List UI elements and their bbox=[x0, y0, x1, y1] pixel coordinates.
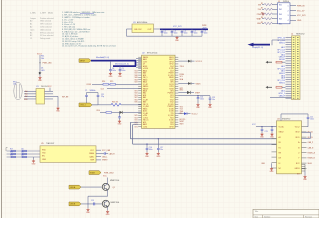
svg-text:CLK6 selected: CLK6 selected bbox=[40, 26, 52, 29]
J2 left pin stubs bbox=[286, 37, 292, 39]
ground of decoupling bank bbox=[176, 36, 178, 37]
svg-text:LEDB: LEDB bbox=[70, 204, 76, 206]
U5 right pins bbox=[96, 149, 101, 151]
svg-text:N70: N70 bbox=[135, 102, 138, 104]
svg-text:IO_B15: IO_B15 bbox=[168, 75, 174, 77]
svg-text:CANH: CANH bbox=[89, 152, 95, 155]
cap C12 with ground bbox=[119, 112, 121, 116]
svg-text:B1: B1 bbox=[30, 32, 32, 34]
svg-text:A2: A2 bbox=[25, 95, 27, 98]
svg-text:ASV-50MHz: ASV-50MHz bbox=[137, 21, 147, 24]
ground of C8 bbox=[110, 72, 112, 73]
svg-text:220: 220 bbox=[21, 148, 24, 150]
svg-text:100n: 100n bbox=[149, 149, 153, 151]
U2 left pin stubs bbox=[138, 56, 141, 58]
svg-text:100n: 100n bbox=[122, 70, 126, 72]
J2 bus entry lower bbox=[268, 86, 272, 88]
svg-text:A1: A1 bbox=[279, 136, 281, 139]
svg-text:GND selected: GND selected bbox=[40, 20, 51, 23]
svg-text:RX1: RX1 bbox=[170, 95, 173, 97]
svg-text:IN5: IN5 bbox=[279, 23, 282, 25]
svg-text:Position selected: Position selected bbox=[40, 17, 54, 20]
sheet left border bbox=[1, 0, 3, 218]
svg-text:GP13: GP13 bbox=[169, 61, 173, 63]
svg-text:SWO: SWO bbox=[180, 123, 185, 125]
svg-text:N91: N91 bbox=[135, 91, 138, 93]
svg-text:IO_B6: IO_B6 bbox=[169, 108, 174, 110]
svg-text:+3V3: +3V3 bbox=[202, 27, 206, 29]
svg-text:VCC_5V: VCC_5V bbox=[297, 10, 305, 12]
svg-text:PWM16: PWM16 bbox=[168, 93, 174, 95]
svg-text:VCC1.2: VCC1.2 bbox=[192, 113, 198, 115]
svg-text:10k: 10k bbox=[41, 58, 44, 60]
port CLK_OSC bbox=[79, 103, 92, 107]
svg-text:Q1: Q1 bbox=[113, 187, 115, 189]
svg-text:INT2: INT2 bbox=[180, 90, 184, 92]
port LED_A bbox=[69, 185, 81, 189]
ground of C24 bbox=[197, 103, 199, 104]
cap C24 bbox=[197, 95, 198, 96]
svg-text:TJA1050T: TJA1050T bbox=[46, 142, 55, 145]
diode D2 row bbox=[178, 60, 188, 62]
svg-text:A2: A2 bbox=[30, 26, 32, 29]
svg-text:WE_11: WE_11 bbox=[143, 104, 148, 106]
svg-text:100n: 100n bbox=[112, 70, 116, 72]
svg-text:MOSI1: MOSI1 bbox=[279, 59, 285, 61]
port LED_B bbox=[69, 202, 81, 206]
svg-text:MMBT3904: MMBT3904 bbox=[111, 202, 120, 204]
ground of U1 bbox=[57, 107, 59, 108]
svg-text:TX17: TX17 bbox=[170, 97, 174, 99]
svg-text:RX4: RX4 bbox=[170, 122, 173, 124]
svg-text:VCC_3V3: VCC_3V3 bbox=[297, 15, 305, 17]
svg-text:ISO1: ISO1 bbox=[295, 137, 299, 139]
svg-text:STAT: STAT bbox=[90, 171, 96, 174]
svg-text:3: 3 bbox=[288, 15, 289, 17]
cap C19 inline bbox=[93, 202, 95, 205]
pull-up loop left of U1 bbox=[14, 82, 22, 100]
svg-text:VCCA: VCCA bbox=[279, 126, 285, 129]
svg-text:N19: N19 bbox=[135, 73, 138, 75]
svg-text:nCS4: nCS4 bbox=[143, 115, 147, 117]
svg-text:10u: 10u bbox=[160, 149, 163, 151]
svg-text:5V0: 5V0 bbox=[258, 9, 261, 11]
svg-text:RX11: RX11 bbox=[170, 86, 174, 88]
svg-text:RS485_A: RS485_A bbox=[308, 152, 316, 155]
svg-text:EN OSC: EN OSC bbox=[135, 29, 143, 31]
svg-text:HDR20X2: HDR20X2 bbox=[296, 34, 305, 36]
svg-text:SHLD: SHLD bbox=[308, 163, 313, 165]
svg-text:N87: N87 bbox=[135, 97, 138, 99]
svg-text:PWR_IN: PWR_IN bbox=[297, 5, 305, 7]
svg-text:R4: R4 bbox=[261, 17, 263, 19]
svg-text:GP0: GP0 bbox=[170, 82, 173, 84]
svg-text:NC2: NC2 bbox=[296, 163, 300, 165]
cap C25 bbox=[209, 96, 211, 98]
svg-text:C19: C19 bbox=[91, 200, 94, 202]
svg-text:CONF: CONF bbox=[86, 84, 91, 86]
svg-text:220: 220 bbox=[21, 151, 24, 153]
svg-text:100n: 100n bbox=[174, 33, 178, 35]
wire Q2 emitter bbox=[107, 207, 109, 211]
wire oscillator loop bbox=[127, 28, 133, 30]
svg-text:24LC64: 24LC64 bbox=[41, 86, 48, 88]
svg-text:N54: N54 bbox=[135, 95, 138, 97]
svg-text:RX18: RX18 bbox=[169, 88, 173, 90]
svg-text:N29: N29 bbox=[135, 82, 138, 84]
wire U2 to U4 line1 bbox=[129, 122, 131, 138]
svg-text:N13: N13 bbox=[135, 70, 138, 72]
cap C23 bbox=[271, 126, 272, 127]
svg-text:nCS16: nCS16 bbox=[143, 68, 148, 70]
svg-text:N72: N72 bbox=[135, 120, 138, 122]
svg-text:GND3: GND3 bbox=[295, 168, 300, 170]
svg-text:R16 33: R16 33 bbox=[112, 102, 118, 104]
svg-text:PWM12: PWM12 bbox=[168, 106, 174, 108]
svg-text:CAN selected: CAN selected bbox=[40, 28, 51, 31]
ground of C17 bbox=[157, 152, 159, 153]
svg-text:N24: N24 bbox=[135, 117, 138, 119]
svg-text:R2: R2 bbox=[261, 8, 263, 10]
svg-text:WE_5: WE_5 bbox=[143, 77, 148, 79]
J1 right pin wires bbox=[290, 5, 296, 7]
svg-text:Size: Size bbox=[255, 216, 259, 218]
cap C9 bbox=[119, 66, 121, 69]
wire Q1 collector up bbox=[107, 178, 109, 185]
svg-text:GPIO selected: GPIO selected bbox=[40, 23, 52, 26]
svg-text:DQ13: DQ13 bbox=[169, 84, 173, 86]
U2 right pin stubs bbox=[175, 56, 178, 58]
svg-text:100n: 100n bbox=[184, 33, 188, 35]
wire stub bottom left bbox=[130, 121, 138, 123]
svg-text:IN3: IN3 bbox=[279, 14, 282, 16]
ground of cap branch bbox=[87, 208, 89, 209]
svg-text:EP1C3T144: EP1C3T144 bbox=[147, 52, 157, 54]
wire cap branch down bbox=[87, 204, 89, 208]
U5 input wires with termination resistors bbox=[7, 150, 41, 152]
transistor Q1 bbox=[102, 183, 109, 190]
wire Q1 emitter down bbox=[107, 190, 109, 196]
svg-text:GP19: GP19 bbox=[169, 126, 173, 128]
svg-text:nCS7: nCS7 bbox=[143, 61, 147, 63]
svg-text:1: 1 bbox=[288, 5, 289, 7]
svg-text:MISO1: MISO1 bbox=[279, 82, 285, 84]
wire U4 top loop bbox=[280, 114, 282, 121]
wire J2 bottom stub bbox=[270, 96, 292, 98]
J2 bus entry upper bbox=[268, 61, 272, 63]
svg-text:D7: D7 bbox=[143, 64, 145, 66]
svg-text:TX12: TX12 bbox=[170, 102, 174, 104]
svg-text:C23: C23 bbox=[265, 131, 268, 133]
svg-text:100n: 100n bbox=[204, 33, 208, 35]
wire Q1 to Q2 link bbox=[88, 195, 108, 197]
svg-text:J_SEL: J_SEL bbox=[30, 12, 37, 14]
svg-text:IN2: IN2 bbox=[279, 9, 282, 11]
svg-text:Number: Number bbox=[264, 216, 271, 218]
svg-text:PWM7: PWM7 bbox=[169, 73, 174, 75]
svg-text:TX12: TX12 bbox=[170, 99, 174, 101]
svg-text:A0: A0 bbox=[25, 90, 27, 93]
wire row 2 bbox=[107, 88, 142, 90]
svg-text:MEM: MEM bbox=[80, 60, 85, 62]
ground of C16 bbox=[146, 152, 148, 153]
svg-text:CLK12: CLK12 bbox=[143, 117, 148, 119]
svg-text:MemData(15..0): MemData(15..0) bbox=[115, 62, 129, 65]
svg-text:100n: 100n bbox=[200, 98, 204, 100]
U4 bottom right pins labels bbox=[302, 163, 306, 165]
svg-text:PWR_LED: PWR_LED bbox=[43, 63, 53, 65]
svg-text:IO_B10: IO_B10 bbox=[168, 115, 174, 117]
U4 left pin stubs bbox=[272, 126, 277, 128]
svg-text:VBUS: VBUS bbox=[196, 83, 202, 85]
svg-text:N25: N25 bbox=[135, 115, 138, 117]
svg-text:Jumper: Jumper bbox=[30, 18, 36, 20]
cap C17 under U2 bbox=[158, 138, 159, 139]
svg-text:WP_EE: WP_EE bbox=[62, 97, 69, 99]
svg-text:PWR_LED2: PWR_LED2 bbox=[104, 172, 114, 174]
svg-text:VREF2: VREF2 bbox=[102, 160, 108, 162]
svg-text:nCS4: nCS4 bbox=[143, 126, 147, 128]
svg-text:IO_B5: IO_B5 bbox=[169, 68, 174, 70]
cap C18 on U5 pin bbox=[101, 153, 104, 155]
wire U4 vcc left bbox=[256, 126, 277, 128]
svg-text:VCC_3V3: VCC_3V3 bbox=[173, 26, 181, 28]
svg-text:RS485_B: RS485_B bbox=[308, 158, 316, 160]
svg-text:15. Do not fit C17 - Productio: 15. Do not fit C17 - Production build on… bbox=[62, 45, 116, 48]
ground U4 left bbox=[271, 168, 273, 169]
svg-text:J_SET: J_SET bbox=[40, 12, 47, 14]
svg-text:Revision: Revision bbox=[305, 216, 312, 218]
svg-text:Debug mode: Debug mode bbox=[40, 38, 50, 40]
svg-text:WE_15: WE_15 bbox=[143, 120, 148, 122]
svg-text:IO_B15: IO_B15 bbox=[168, 104, 174, 106]
svg-text:MMBT3904: MMBT3904 bbox=[110, 180, 119, 182]
svg-text:IO_B6: IO_B6 bbox=[169, 111, 174, 113]
svg-text:R1: R1 bbox=[261, 3, 263, 5]
svg-text:OSC_I: OSC_I bbox=[80, 105, 86, 107]
svg-text:LEDA: LEDA bbox=[70, 186, 76, 189]
svg-text:B2: B2 bbox=[30, 35, 32, 37]
wire to Q1 bbox=[81, 186, 102, 188]
svg-text:R19: R19 bbox=[10, 154, 13, 156]
power bus VCC bbox=[160, 28, 208, 30]
svg-text:DQ8: DQ8 bbox=[170, 79, 173, 81]
svg-text:GND2: GND2 bbox=[279, 132, 284, 134]
svg-text:SPI bus selected: SPI bus selected bbox=[40, 31, 54, 34]
svg-text:R14: R14 bbox=[102, 81, 105, 83]
note 1 hyperlink bbox=[80, 13, 94, 15]
J2 pin numbers bbox=[293, 37, 295, 39]
ground of C9 bbox=[119, 72, 121, 73]
svg-text:Periph(31..0): Periph(31..0) bbox=[252, 46, 263, 49]
svg-text:CAN_P: CAN_P bbox=[308, 141, 315, 144]
svg-text:GND: GND bbox=[297, 20, 302, 22]
ground of termination bbox=[33, 157, 35, 160]
svg-text:50MHz: 50MHz bbox=[90, 90, 96, 92]
ground of LED chain bbox=[39, 77, 41, 78]
svg-text:22p: 22p bbox=[101, 96, 104, 98]
svg-text:R0: R0 bbox=[279, 142, 281, 144]
ground U4 right bbox=[304, 171, 306, 176]
svg-text:PWR: PWR bbox=[257, 14, 262, 16]
svg-text:TX5: TX5 bbox=[170, 113, 173, 115]
svg-text:220: 220 bbox=[21, 154, 24, 156]
decoupling caps C2-C6 bbox=[161, 29, 163, 31]
svg-text:N71: N71 bbox=[135, 126, 138, 128]
svg-text:A0: A0 bbox=[30, 20, 32, 23]
svg-text:GND: GND bbox=[42, 159, 47, 161]
svg-text:IO_B0: IO_B0 bbox=[169, 120, 174, 122]
svg-text:10u: 10u bbox=[212, 99, 215, 101]
port STATUS bbox=[89, 171, 101, 175]
svg-text:GP12: GP12 bbox=[169, 64, 173, 66]
svg-text:CAN_L: CAN_L bbox=[102, 156, 108, 159]
svg-text:C1: C1 bbox=[30, 38, 32, 40]
svg-text:A1: A1 bbox=[25, 93, 27, 96]
svg-text:R17: R17 bbox=[10, 148, 13, 150]
resistor R16 zigzag bbox=[92, 104, 111, 106]
wire U1 vcc stub bbox=[49, 88, 51, 92]
U4 right pin stubs bbox=[302, 126, 307, 128]
wire J2 top feed bbox=[272, 39, 286, 41]
svg-text:IN1: IN1 bbox=[279, 5, 282, 7]
svg-text:4: 4 bbox=[288, 20, 289, 22]
svg-text:2: 2 bbox=[288, 10, 289, 12]
svg-text:SCL: SCL bbox=[180, 76, 183, 78]
svg-text:VCC3.3: VCC3.3 bbox=[196, 61, 202, 63]
svg-text:N88: N88 bbox=[135, 77, 138, 79]
svg-text:SN65HVD: SN65HVD bbox=[282, 118, 291, 120]
svg-text:CAN_H: CAN_H bbox=[109, 152, 116, 155]
svg-text:GP4: GP4 bbox=[170, 91, 173, 93]
svg-text:VCC2: VCC2 bbox=[295, 127, 300, 129]
blue zener row bbox=[178, 113, 184, 115]
J2 net labels bbox=[278, 37, 285, 39]
title block bbox=[253, 209, 319, 218]
svg-text:GND: GND bbox=[257, 23, 262, 25]
cap C16 under U2 bbox=[146, 144, 147, 145]
svg-text:CAN_N: CAN_N bbox=[308, 146, 315, 149]
svg-text:R1: R1 bbox=[279, 147, 281, 149]
diode D4 row bbox=[178, 92, 187, 94]
port MEM_CTRL bbox=[79, 59, 91, 63]
ground of Q2 bbox=[107, 210, 109, 211]
wire oscillator out bbox=[154, 28, 161, 30]
J2 power bus arrow bbox=[253, 44, 270, 46]
U1 right pins bbox=[45, 90, 54, 92]
cap C21 top right bbox=[307, 116, 310, 118]
diode D3 row bbox=[178, 83, 188, 85]
svg-text:R18: R18 bbox=[10, 151, 13, 153]
svg-text:N56: N56 bbox=[135, 99, 138, 101]
bus mem data bbox=[113, 65, 136, 67]
svg-text:N58: N58 bbox=[135, 79, 138, 81]
svg-text:IN4: IN4 bbox=[279, 19, 282, 21]
ground of C25 bbox=[209, 103, 211, 104]
svg-text:DQ4: DQ4 bbox=[170, 66, 173, 68]
transistor Q2 bbox=[102, 200, 109, 207]
svg-text:R15: R15 bbox=[110, 81, 113, 83]
svg-text:RX1: RX1 bbox=[170, 117, 173, 119]
svg-text:10k: 10k bbox=[13, 84, 16, 86]
svg-text:Open: Open bbox=[30, 29, 34, 31]
svg-text:VCC_CAN: VCC_CAN bbox=[102, 149, 111, 152]
svg-text:CANL: CANL bbox=[89, 155, 94, 158]
svg-text:R5: R5 bbox=[261, 22, 263, 24]
cap C8 on bus bbox=[110, 61, 112, 70]
wire vcc rail right bbox=[178, 95, 210, 97]
J1 left pin wires with series resistors bbox=[272, 4, 278, 6]
svg-text:MemAdd(19..0): MemAdd(19..0) bbox=[96, 56, 109, 59]
wire bus stubs to U2 bbox=[136, 58, 142, 60]
svg-text:I2C bus selected: I2C bus selected bbox=[40, 34, 53, 37]
cap C22 bbox=[261, 126, 262, 127]
U1 left pins bbox=[24, 90, 36, 92]
svg-text:CAN_H: CAN_H bbox=[279, 94, 286, 97]
bus corner bbox=[135, 61, 137, 67]
svg-text:100n: 100n bbox=[164, 33, 168, 35]
net class bracket bbox=[5, 148, 7, 152]
svg-text:DQ7: DQ7 bbox=[170, 70, 173, 72]
wire to Q2 bbox=[81, 203, 102, 205]
svg-text:CFG: CFG bbox=[96, 110, 100, 112]
svg-text:A1: A1 bbox=[30, 23, 32, 26]
svg-text:100n: 100n bbox=[194, 33, 198, 35]
svg-text:Mode: Mode bbox=[48, 12, 54, 14]
bus mem address bbox=[91, 60, 136, 62]
svg-text:MISO1: MISO1 bbox=[279, 43, 285, 45]
svg-text:100n: 100n bbox=[310, 119, 314, 121]
wire crystal bottom bbox=[87, 104, 99, 106]
svg-text:Y1: Y1 bbox=[85, 90, 87, 92]
wire U4 right loop2 bbox=[302, 131, 311, 133]
svg-text:RX3: RX3 bbox=[170, 124, 173, 126]
svg-text:N36: N36 bbox=[135, 75, 138, 77]
svg-text:TXD0: TXD0 bbox=[180, 66, 184, 68]
cap bottom wire bbox=[162, 35, 202, 37]
wire U2 to U4 line2 bbox=[132, 125, 134, 145]
svg-text:ISO2: ISO2 bbox=[295, 132, 299, 134]
svg-text:N42: N42 bbox=[135, 93, 138, 95]
svg-text:LED: LED bbox=[41, 70, 45, 72]
